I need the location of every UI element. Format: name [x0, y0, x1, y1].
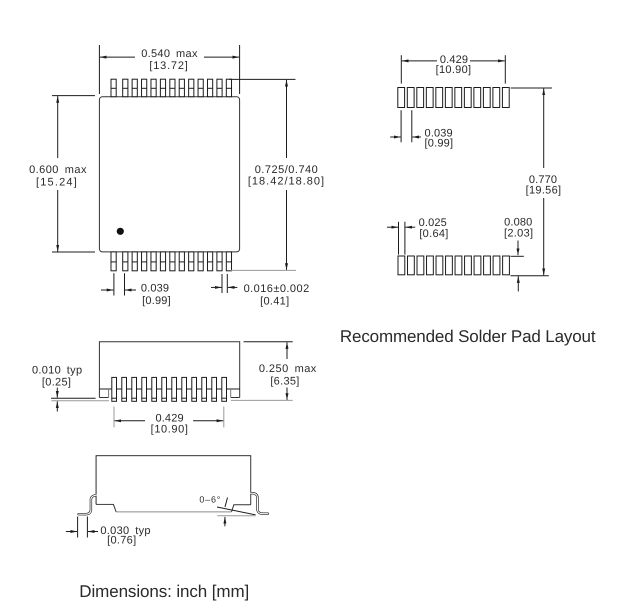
svg-text:[2.03]: [2.03]: [504, 227, 533, 239]
svg-text:[0.99]: [0.99]: [142, 295, 171, 307]
svg-text:[13.72]: [13.72]: [149, 60, 188, 72]
svg-text:[10.90]: [10.90]: [151, 424, 189, 436]
svg-text:0.725/0.740: 0.725/0.740: [255, 164, 319, 176]
svg-text:[19.56]: [19.56]: [526, 185, 562, 197]
svg-text:0.540 max: 0.540 max: [141, 48, 198, 60]
svg-text:0.010 typ: 0.010 typ: [32, 364, 82, 376]
svg-text:[15.24]: [15.24]: [36, 176, 78, 188]
svg-text:0.250 max: 0.250 max: [259, 363, 317, 375]
svg-text:0.600 max: 0.600 max: [29, 164, 87, 176]
svg-text:[6.35]: [6.35]: [270, 376, 299, 388]
svg-text:[10.90]: [10.90]: [436, 64, 472, 76]
svg-text:0.016±0.002: 0.016±0.002: [244, 283, 310, 295]
svg-text:[0.64]: [0.64]: [419, 228, 448, 240]
svg-text:[18.42/18.80]: [18.42/18.80]: [248, 175, 325, 187]
svg-text:[0.41]: [0.41]: [260, 295, 289, 307]
svg-text:0–6°: 0–6°: [199, 494, 221, 504]
svg-text:Recommended Solder Pad Layout: Recommended Solder Pad Layout: [340, 327, 596, 346]
svg-text:[0.76]: [0.76]: [107, 534, 136, 546]
svg-text:0.039: 0.039: [141, 283, 169, 295]
svg-text:[0.99]: [0.99]: [425, 138, 454, 150]
svg-text:Dimensions: inch [mm]: Dimensions: inch [mm]: [79, 582, 249, 601]
svg-text:[0.25]: [0.25]: [42, 377, 71, 389]
